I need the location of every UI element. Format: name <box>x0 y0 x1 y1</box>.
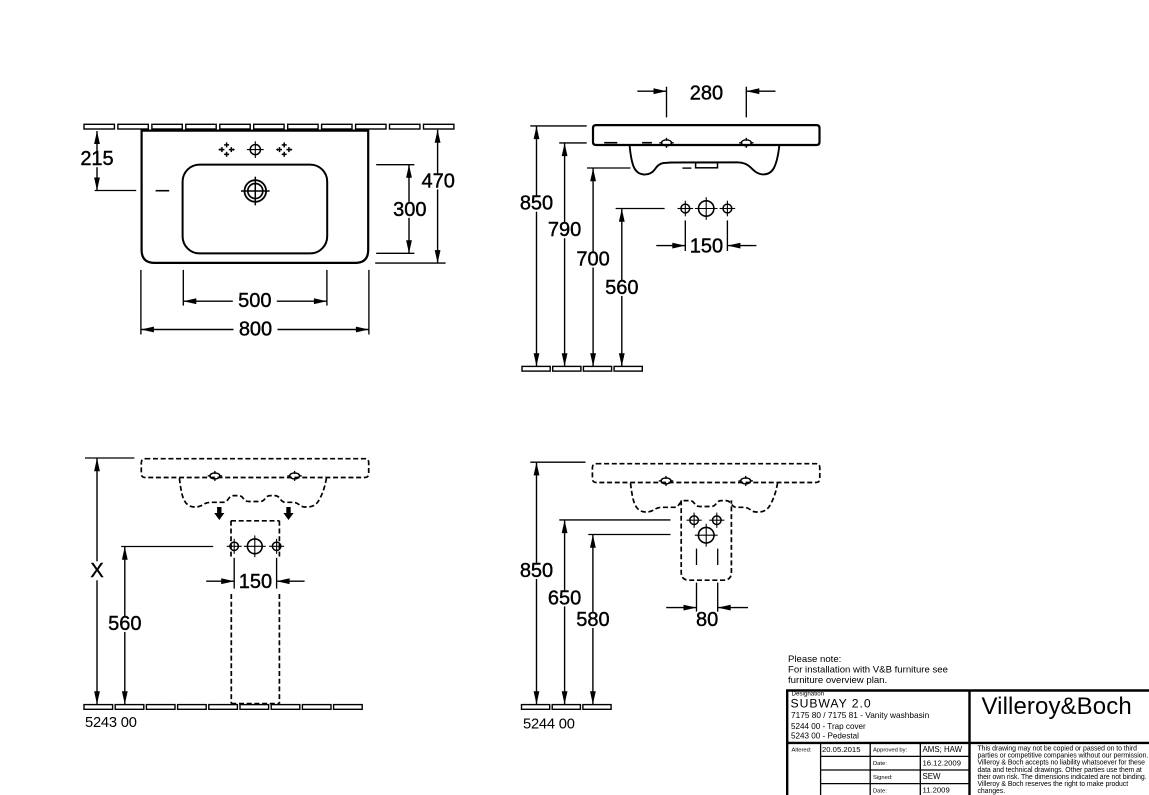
trap cover seen from side <box>682 163 717 169</box>
svg-text:5244 00 - Trap cover: 5244 00 - Trap cover <box>791 722 866 731</box>
dimension 150 (supply hole spacing, side view) <box>656 220 756 257</box>
svg-text:Villeroy & Boch accepts no lia: Villeroy & Boch accepts no liability wha… <box>978 760 1146 767</box>
svg-text:Villeroy&Boch: Villeroy&Boch <box>982 693 1132 720</box>
dimension 215 (basin front edge to drain) <box>78 131 136 191</box>
dimension 150 (supply hole spacing, pedestal view) <box>206 558 304 593</box>
svg-text:This drawing may not be copied: This drawing may not be copied or passed… <box>978 746 1138 753</box>
dimension 800 (basin overall width) <box>141 270 369 341</box>
svg-text:Date:: Date: <box>873 788 887 794</box>
basin bowl profile (side view) <box>630 146 780 175</box>
svg-text:parties or competitive compani: parties or competitive companies without… <box>978 753 1149 760</box>
washbasin outer rim 800x470 (plan view) <box>142 131 369 263</box>
svg-text:560: 560 <box>605 277 638 299</box>
revision table text <box>792 745 963 795</box>
dimension 650 (supply holes height, trap cover view) <box>546 520 670 704</box>
svg-text:150: 150 <box>690 235 723 257</box>
dimension 470 (basin depth) <box>375 130 457 263</box>
dimension 560 (supply holes height) <box>603 209 664 367</box>
floor tiling (side view) <box>522 366 642 371</box>
svg-text:data and technical drawings. O: data and technical drawings. Other parti… <box>978 767 1142 774</box>
drain hole (plan view) <box>241 177 270 206</box>
left fixing screw hole (side view) <box>659 138 673 148</box>
svg-text:500: 500 <box>238 290 271 312</box>
svg-text:560: 560 <box>108 613 141 635</box>
product number 5244 00 - trap cover view <box>523 716 575 732</box>
svg-text:80: 80 <box>696 609 718 631</box>
svg-text:280: 280 <box>690 82 723 104</box>
dimension 500 (inner basin width) <box>183 270 327 312</box>
title block table grid <box>821 744 970 795</box>
svg-text:changes.: changes. <box>978 788 1006 795</box>
washbasin dashed outline (trap cover view) <box>592 464 819 512</box>
dimension 850 (rim height, trap cover view) <box>518 462 586 704</box>
svg-text:Please note:: Please note: <box>788 654 841 665</box>
svg-text:650: 650 <box>548 587 581 609</box>
supply hole left (pedestal view) <box>227 539 242 554</box>
svg-text:850: 850 <box>520 560 553 582</box>
left pre-drilled faucet hole marker <box>218 142 235 156</box>
right fixing screw hole (side view) <box>739 138 753 148</box>
dimension 300 (inner basin depth) <box>376 165 429 254</box>
svg-text:215: 215 <box>80 148 113 170</box>
drain hole centre (trap cover view) <box>695 524 718 547</box>
svg-text:470: 470 <box>422 170 455 192</box>
overflow mark (plan view) <box>156 190 170 192</box>
dimension 80 (drain pipe width) <box>666 549 748 631</box>
washbasin slab (side view) <box>593 125 820 145</box>
svg-text:7175 80 / 7175 81 - Vanity was: 7175 80 / 7175 81 - Vanity washbasin <box>791 710 930 720</box>
washbasin dashed outline (pedestal view) <box>141 459 368 507</box>
right pre-drilled faucet hole marker <box>276 142 293 156</box>
pedestal position arrow right <box>283 507 293 520</box>
svg-text:Altered:: Altered: <box>792 747 812 753</box>
svg-text:5244 00: 5244 00 <box>523 716 575 732</box>
svg-text:Approved by:: Approved by: <box>873 748 908 754</box>
svg-text:SEW: SEW <box>923 772 942 781</box>
svg-text:Date:: Date: <box>873 761 887 767</box>
supply hole right (side view) <box>720 201 736 217</box>
svg-text:800: 800 <box>239 319 272 341</box>
svg-text:5243 00 - Pedestal: 5243 00 - Pedestal <box>791 731 859 740</box>
svg-text:700: 700 <box>576 249 609 271</box>
pedestal position arrow left <box>214 507 224 520</box>
svg-text:For installation with V&B furn: For installation with V&B furniture see <box>788 664 948 675</box>
svg-text:AMS; HAW: AMS; HAW <box>923 745 963 754</box>
svg-text:their own risk. The dimensions: their own risk. The dimensions indicated… <box>978 774 1147 781</box>
svg-text:20.05.2015: 20.05.2015 <box>822 745 860 754</box>
svg-text:Signed:: Signed: <box>873 775 893 781</box>
legal disclaimer text <box>978 746 1149 795</box>
title block frame <box>786 690 1149 795</box>
svg-text:790: 790 <box>548 219 581 241</box>
inner basin rim 500x300 (plan view) <box>183 165 328 254</box>
svg-text:X: X <box>90 560 103 582</box>
svg-text:SUBWAY 2.0: SUBWAY 2.0 <box>791 697 872 711</box>
hidden edge dashes under slab (side view) <box>604 142 652 144</box>
dimension 850 (rim height) <box>518 126 587 366</box>
product number 5243 00 - pedestal view <box>85 715 137 731</box>
installation note text <box>788 654 948 686</box>
svg-text:11.2009: 11.2009 <box>923 785 950 794</box>
supply hole centre (pedestal view) <box>244 535 266 557</box>
svg-text:furniture overview plan.: furniture overview plan. <box>788 675 887 686</box>
trap cover dashed outline <box>681 500 731 580</box>
dimension 580 (drain height, trap cover view) <box>574 535 670 705</box>
supply hole centre (side view) <box>695 197 718 220</box>
svg-text:580: 580 <box>576 609 609 631</box>
svg-text:850: 850 <box>520 193 553 215</box>
svg-text:Villeroy & Boch reserves the r: Villeroy & Boch reserves the right to ma… <box>978 781 1129 788</box>
dimension 700 (bowl underside) <box>575 168 631 366</box>
svg-text:5243 00: 5243 00 <box>85 715 137 731</box>
floor tiling (trap cover view) <box>522 705 612 710</box>
supply hole left (trap cover view) <box>687 513 702 528</box>
centre faucet hole marker <box>247 141 264 158</box>
supply hole right (pedestal view) <box>269 539 284 554</box>
supply hole right (trap cover view) <box>709 513 724 528</box>
dimension 560 (supply holes height, pedestal view) <box>106 547 213 705</box>
Villeroy&Boch logo <box>982 693 1132 720</box>
svg-text:150: 150 <box>239 571 272 593</box>
dimension 790 (underside of slab) <box>546 143 587 366</box>
designation cell text <box>791 691 930 741</box>
supply hole left (side view) <box>678 201 694 217</box>
svg-text:300: 300 <box>393 199 426 221</box>
dimension 280 (fixing hole offset) <box>637 82 775 117</box>
wall tiling above washbasin (plan view) <box>84 124 454 129</box>
pedestal dashed outline <box>231 521 279 704</box>
svg-text:16.12.2009: 16.12.2009 <box>923 758 961 767</box>
dimension X (rim height with pedestal) <box>85 458 134 704</box>
floor tiling (pedestal view) <box>84 705 362 710</box>
